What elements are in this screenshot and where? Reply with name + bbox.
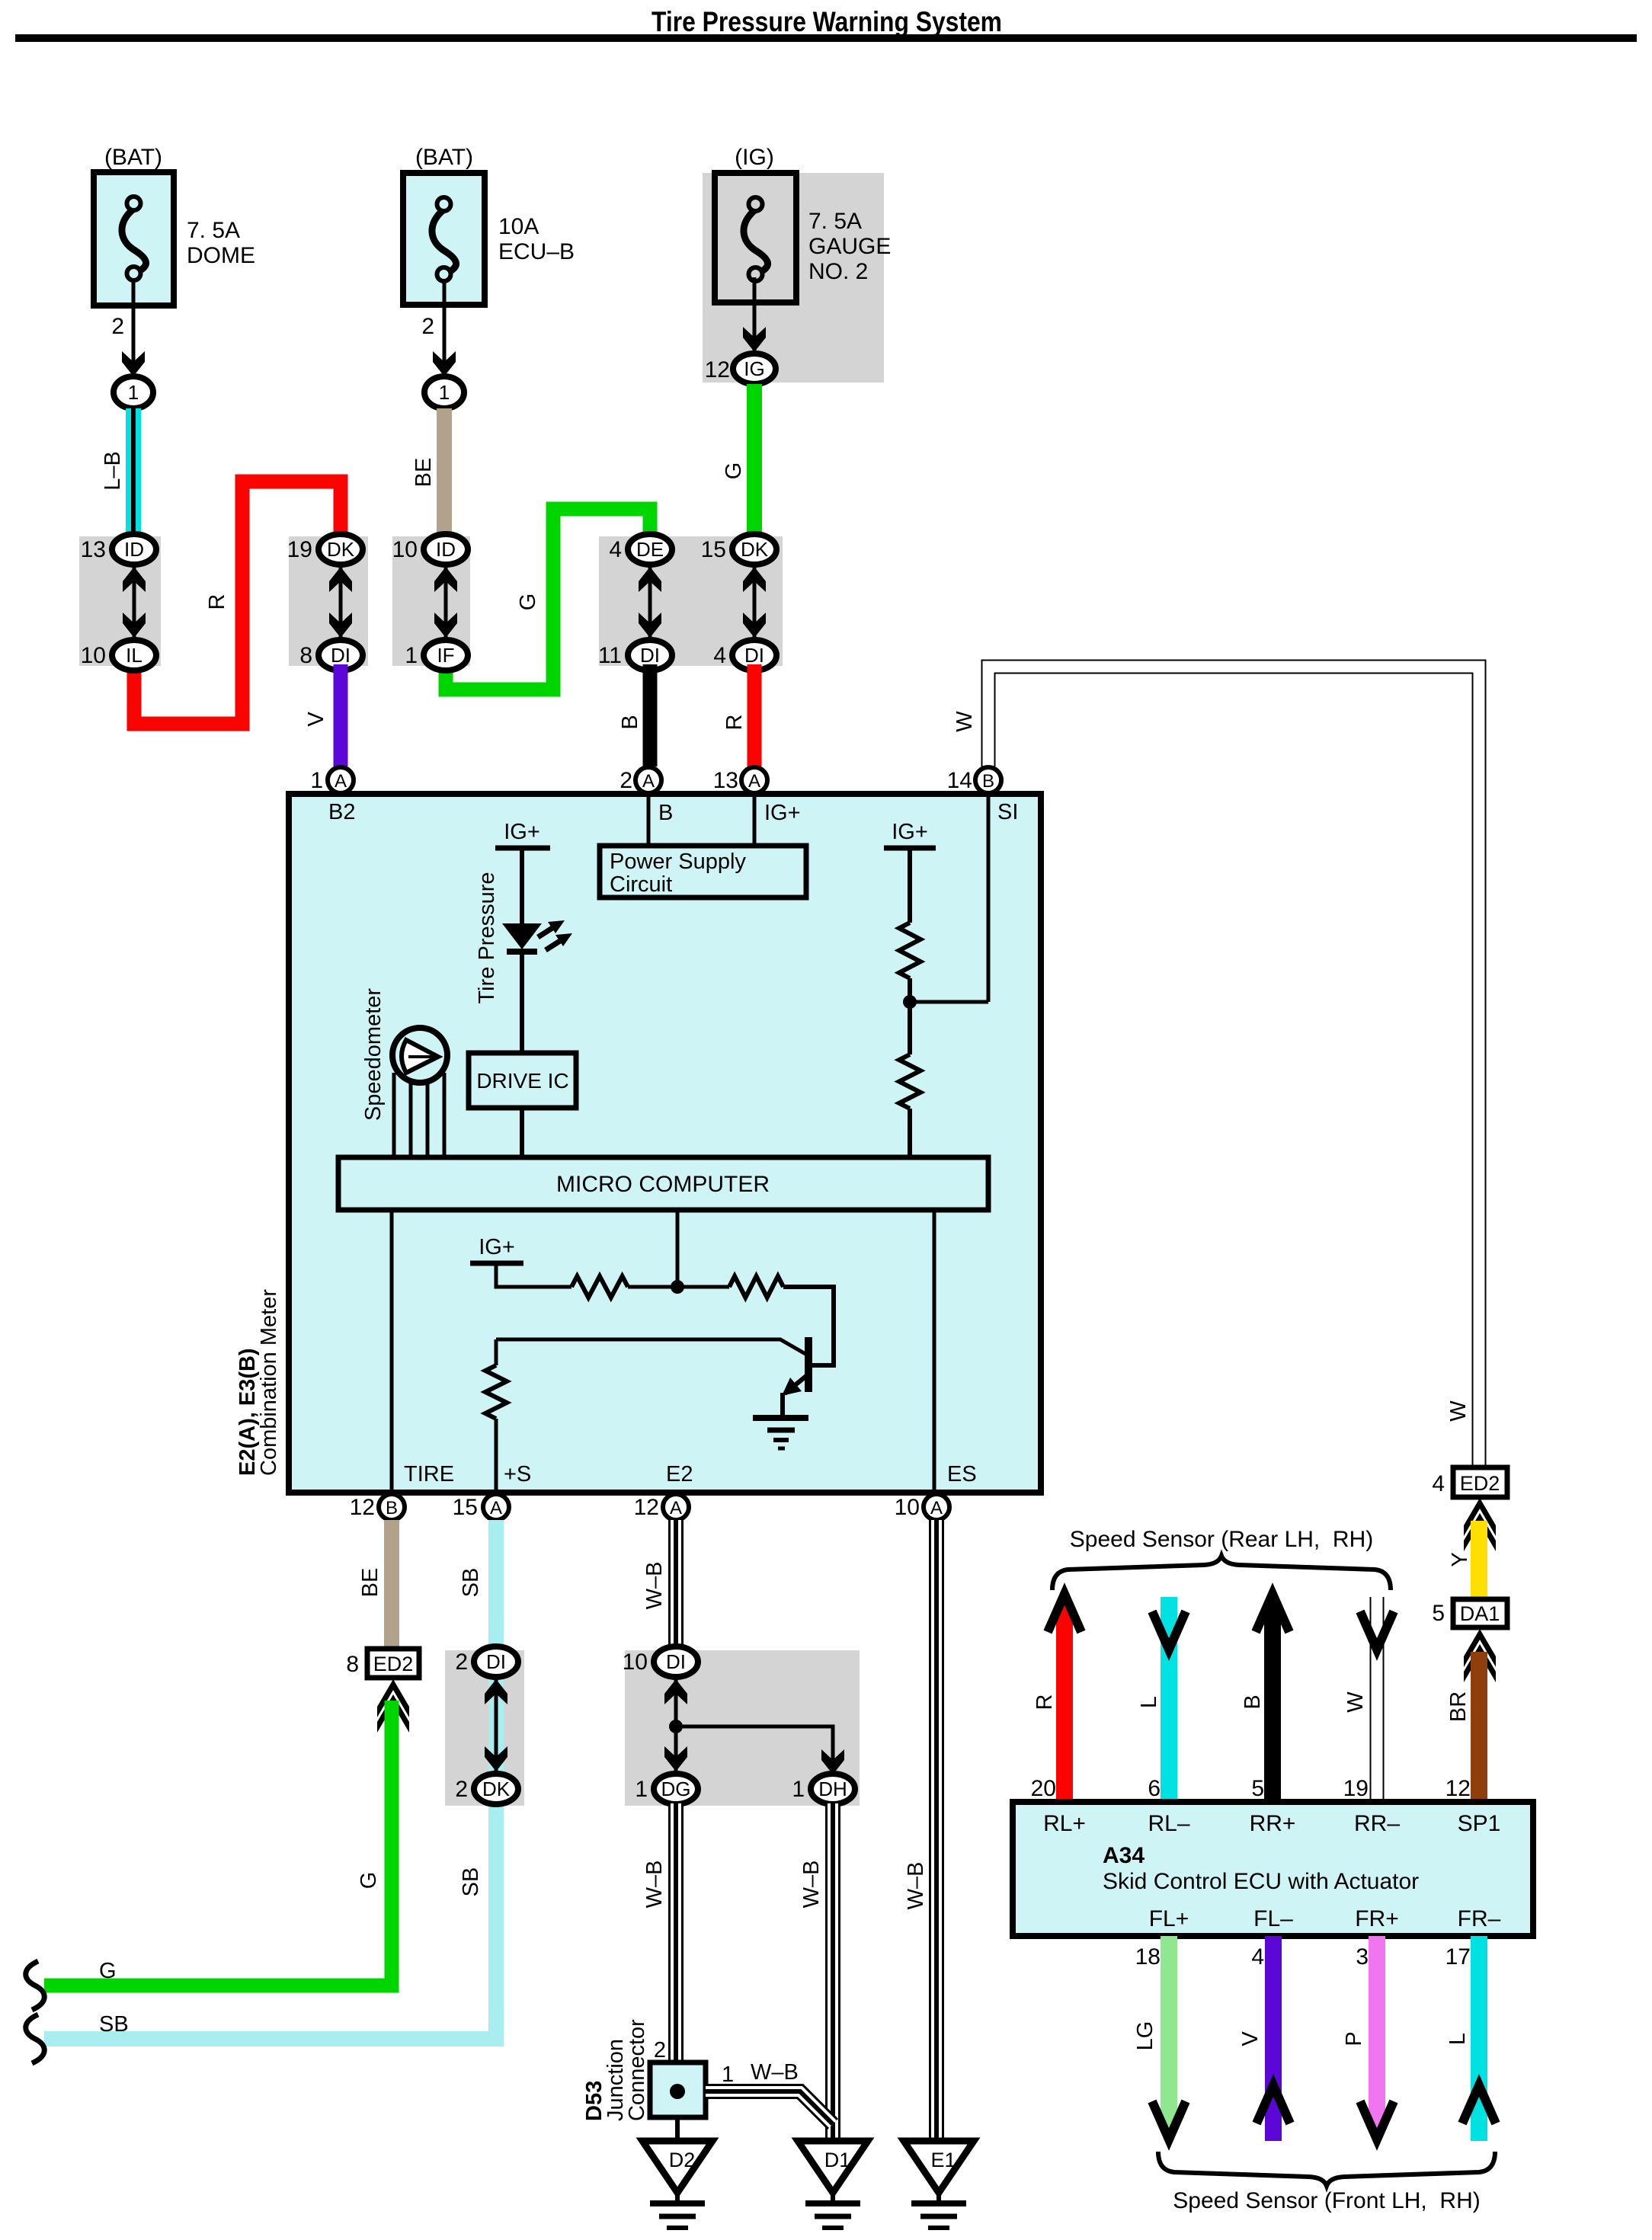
node junction in connector — [669, 1720, 683, 1733]
svg-text:SP1: SP1 — [1458, 1811, 1501, 1836]
svg-text:4: 4 — [609, 537, 622, 562]
svg-text:ID: ID — [436, 538, 456, 561]
node junction SI — [903, 995, 917, 1009]
skid control ECU A34 box — [1013, 1802, 1533, 1936]
svg-text:12: 12 — [1445, 1776, 1471, 1801]
svg-text:DI: DI — [666, 1650, 686, 1673]
svg-text:A: A — [748, 771, 760, 792]
wire V violet DI to meter B2 — [334, 664, 348, 766]
wire fuse DOME to ring 1 — [132, 280, 136, 375]
svg-text:W–B: W–B — [904, 1862, 928, 1910]
svg-text:E2: E2 — [666, 1462, 693, 1486]
chevron ED2 right — [1464, 1498, 1496, 1536]
resistor bias right — [729, 1276, 783, 1298]
svg-text:10: 10 — [623, 1650, 648, 1675]
svg-text:1: 1 — [128, 381, 139, 404]
svg-text:IF: IF — [437, 644, 454, 667]
LED tire pressure warning — [502, 923, 542, 949]
svg-text:20: 20 — [1031, 1776, 1056, 1801]
svg-text:BE: BE — [358, 1568, 383, 1598]
svg-text:W–B: W–B — [642, 1861, 667, 1909]
wire W-B DH to D1 ground — [825, 1803, 840, 2140]
svg-text:DG: DG — [661, 1778, 691, 1800]
svg-text:IG+: IG+ — [504, 820, 540, 844]
speedometer coil wires — [392, 1073, 396, 1157]
svg-text:B: B — [386, 1498, 398, 1518]
svg-text:RR–: RR– — [1354, 1811, 1400, 1836]
svg-text:DI: DI — [640, 644, 660, 667]
gray panel connector DE DK / DI DI — [599, 536, 783, 666]
svg-text:DA1: DA1 — [1460, 1602, 1500, 1625]
svg-text:13: 13 — [713, 768, 738, 793]
wire V violet FL- — [1265, 1936, 1282, 2141]
terminal IG — [733, 354, 776, 384]
svg-text:ED2: ED2 — [1460, 1472, 1500, 1495]
svg-text:A: A — [642, 771, 655, 792]
resistor divider upper — [899, 923, 920, 978]
connector ED2 pin 4 — [1453, 1467, 1507, 1497]
svg-text:Tire Pressure: Tire Pressure — [475, 872, 499, 1004]
svg-text:13: 13 — [81, 537, 106, 562]
svg-text:Speed Sensor (Rear LH, RH): Speed Sensor (Rear LH, RH) — [1070, 1527, 1374, 1552]
connector pass-through arrow DK-DI — [753, 567, 757, 638]
svg-text:V: V — [1238, 2031, 1263, 2046]
svg-text:2: 2 — [455, 1777, 468, 1802]
wire B to power supply — [647, 793, 651, 846]
svg-text:ECU–B: ECU–B — [498, 239, 575, 264]
svg-text:4: 4 — [713, 643, 726, 668]
connector pass-through arrow DI-DK lower — [495, 1679, 498, 1771]
connector DA1 pin 5 — [1453, 1599, 1507, 1627]
wire node to micro computer — [676, 1210, 680, 1287]
gray panel connector DI/DK lower — [445, 1650, 524, 1806]
title rule — [15, 34, 1637, 42]
ground (transistor emitter) — [753, 1415, 808, 1421]
svg-text:5: 5 — [1251, 1776, 1264, 1801]
svg-text:Combination Meter: Combination Meter — [257, 1289, 281, 1476]
svg-text:W–B: W–B — [642, 1562, 667, 1610]
svg-text:Speedometer: Speedometer — [361, 988, 386, 1121]
transistor Q (PNP) — [805, 1337, 812, 1392]
wire B black DI to meter B — [643, 664, 658, 766]
ground D2 — [642, 2141, 712, 2193]
svg-text:FL+: FL+ — [1149, 1906, 1189, 1931]
wire BE tan — [437, 408, 452, 536]
svg-text:4: 4 — [1251, 1944, 1264, 1970]
svg-text:DI: DI — [486, 1650, 506, 1673]
svg-text:7. 5A: 7. 5A — [808, 209, 862, 234]
svg-text:BE: BE — [411, 458, 436, 488]
wire W-B D53 branch to D1 — [706, 2091, 833, 2124]
svg-text:2: 2 — [654, 2038, 666, 2062]
svg-text:SB: SB — [99, 2012, 129, 2037]
micro computer box — [338, 1157, 988, 1210]
svg-text:1: 1 — [792, 1777, 805, 1802]
wire L cyan FR- — [1471, 1936, 1487, 2141]
svg-text:2: 2 — [455, 1650, 468, 1675]
svg-text:19: 19 — [287, 537, 312, 562]
svg-text:RL+: RL+ — [1043, 1811, 1086, 1836]
wire W white speed sensor RR- — [1370, 1597, 1385, 1802]
wire G green IF to DE — [446, 509, 650, 690]
svg-text:W: W — [1446, 1400, 1471, 1422]
wire R red speed sensor RL+ — [1056, 1605, 1073, 1802]
wire L cyan speed sensor RL- — [1161, 1597, 1177, 1802]
brace rear speed sensors — [1052, 1556, 1391, 1590]
svg-text:MICRO COMPUTER: MICRO COMPUTER — [556, 1172, 770, 1197]
wire resistor to collector branch — [783, 1287, 834, 1365]
svg-text:12: 12 — [350, 1495, 375, 1520]
svg-text:(BAT): (BAT) — [415, 145, 473, 170]
wire break squiggle G — [26, 1961, 45, 2010]
wire R red DI to meter IG+ — [748, 664, 762, 766]
wire B black speed sensor RR+ — [1264, 1605, 1281, 1802]
junction connector D53 — [650, 2062, 706, 2117]
wire base from +S node — [496, 1339, 805, 1354]
svg-text:R: R — [722, 715, 747, 731]
svg-text:SB: SB — [459, 1867, 483, 1897]
wire G green to left break — [44, 1701, 392, 1986]
svg-text:IG+: IG+ — [764, 801, 801, 825]
wire Y yellow — [1471, 1521, 1487, 1599]
svg-text:3: 3 — [1356, 1944, 1369, 1970]
wire P pink FR+ — [1369, 1936, 1385, 2130]
svg-text:18: 18 — [1135, 1944, 1161, 1970]
svg-text:G: G — [722, 462, 746, 480]
wire LED to drive ic — [520, 952, 524, 1053]
gray panel connector ID/IF — [392, 536, 470, 666]
svg-text:W: W — [952, 711, 977, 732]
svg-text:R: R — [205, 594, 229, 610]
svg-text:(BAT): (BAT) — [104, 145, 162, 170]
ring terminal 1 (DOME) — [114, 376, 153, 408]
drive ic box — [469, 1053, 576, 1108]
svg-text:7. 5A: 7. 5A — [187, 218, 240, 243]
chevron ED2 — [377, 1679, 409, 1717]
connector arrow DI to DG — [674, 1679, 678, 1771]
svg-text:10A: 10A — [498, 214, 539, 239]
svg-text:15: 15 — [701, 537, 726, 562]
wire SB to left break — [44, 1520, 496, 2039]
gray panel connector ID/IL — [79, 536, 161, 666]
svg-text:A: A — [670, 1498, 682, 1518]
svg-text:RR+: RR+ — [1250, 1811, 1296, 1836]
svg-text:D1: D1 — [824, 2149, 851, 2171]
wire IG+ to power supply — [753, 793, 757, 846]
svg-text:L–B: L–B — [101, 451, 125, 491]
wire W-B ES to E1 ground — [929, 1520, 944, 2140]
svg-text:2: 2 — [111, 314, 124, 339]
svg-text:ID: ID — [124, 538, 144, 561]
svg-text:+S: +S — [504, 1462, 531, 1486]
svg-text:ED2: ED2 — [373, 1653, 414, 1675]
svg-text:DK: DK — [741, 538, 769, 561]
svg-text:8: 8 — [346, 1652, 359, 1677]
svg-text:4: 4 — [1432, 1471, 1445, 1496]
svg-text:G: G — [516, 594, 540, 611]
svg-text:G: G — [99, 1959, 117, 1983]
wire fuse ECU-B to ring 1 — [443, 280, 447, 375]
svg-text:ES: ES — [947, 1462, 977, 1486]
svg-text:R: R — [1032, 1694, 1057, 1710]
wire W-B E2 to DI — [668, 1520, 684, 1650]
svg-text:(IG): (IG) — [735, 145, 774, 170]
svg-text:L: L — [1445, 2033, 1470, 2045]
wire emitter to ground — [780, 1393, 785, 1417]
wire to node — [628, 1285, 729, 1289]
svg-text:GAUGE: GAUGE — [808, 234, 891, 259]
svg-text:RL–: RL– — [1148, 1811, 1189, 1836]
connector pass-through arrow ID-IF — [444, 567, 448, 638]
power supply circuit box — [600, 846, 806, 898]
svg-text:5: 5 — [1432, 1601, 1445, 1626]
svg-text:A: A — [490, 1498, 502, 1518]
svg-text:Circuit: Circuit — [610, 872, 672, 897]
svg-text:DH: DH — [818, 1778, 847, 1800]
wire R red IL to DK — [134, 482, 341, 724]
svg-text:A: A — [335, 771, 347, 792]
fuse 7.5A GAUGE NO.2 — [715, 173, 796, 302]
svg-text:FL–: FL– — [1253, 1906, 1293, 1931]
svg-text:W–B: W–B — [751, 2060, 799, 2085]
svg-text:E1: E1 — [930, 2149, 956, 2171]
svg-text:IL: IL — [126, 644, 142, 667]
wire W-B DG to D53 — [668, 1803, 684, 2062]
svg-text:1: 1 — [722, 2062, 734, 2087]
svg-text:19: 19 — [1343, 1776, 1369, 1801]
svg-text:1: 1 — [439, 381, 450, 404]
svg-text:V: V — [304, 712, 328, 727]
svg-text:Speed Sensor (Front LH, RH): Speed Sensor (Front LH, RH) — [1173, 2188, 1481, 2213]
wire fuse GAUGE to IG terminal — [753, 277, 757, 350]
svg-text:1: 1 — [310, 768, 323, 793]
fuse 7.5A DOME — [94, 172, 174, 306]
resistor divider lower — [899, 1054, 920, 1109]
resistor bias left — [571, 1276, 628, 1298]
svg-text:10: 10 — [895, 1495, 920, 1520]
wire TIRE output — [390, 1210, 394, 1493]
svg-text:1: 1 — [635, 1777, 648, 1802]
svg-text:FR–: FR– — [1458, 1906, 1501, 1931]
svg-text:SI: SI — [997, 800, 1018, 824]
svg-text:B: B — [1241, 1694, 1265, 1709]
brace front speed sensors — [1158, 2152, 1495, 2186]
gray panel behind GAUGE fuse — [703, 173, 884, 382]
fuse 10A ECU-B — [403, 173, 485, 305]
svg-text:FR+: FR+ — [1355, 1906, 1399, 1931]
wire BR brown — [1471, 1652, 1487, 1802]
svg-text:A34: A34 — [1103, 1843, 1145, 1868]
svg-text:DK: DK — [482, 1778, 511, 1800]
svg-text:10: 10 — [392, 537, 418, 562]
svg-text:1: 1 — [405, 643, 418, 668]
svg-text:D2: D2 — [669, 2149, 696, 2171]
svg-text:W–B: W–B — [799, 1861, 824, 1909]
svg-text:LG: LG — [1133, 2021, 1157, 2051]
ring terminal 1 (ECU-B) — [424, 376, 464, 408]
wire break squiggle SB — [26, 2014, 45, 2063]
connector pass-through arrow DE-DI — [648, 567, 652, 638]
svg-text:P: P — [1342, 2031, 1366, 2046]
svg-text:DOME: DOME — [187, 243, 255, 268]
wire drive ic to micro computer — [520, 1108, 524, 1157]
connector pass-through arrow DK-DI — [339, 567, 343, 638]
LED light arrows — [538, 926, 555, 937]
svg-text:6: 6 — [1148, 1776, 1161, 1801]
gray panel connector DI/DG/DH lower — [625, 1650, 860, 1806]
svg-text:11: 11 — [598, 643, 622, 668]
svg-text:DRIVE IC: DRIVE IC — [476, 1069, 568, 1093]
wire resistor to +S terminal — [495, 1419, 498, 1493]
svg-text:17: 17 — [1445, 1944, 1471, 1970]
svg-text:8: 8 — [299, 643, 312, 668]
svg-text:Skid Control ECU with Actuator: Skid Control ECU with Actuator — [1103, 1869, 1419, 1894]
svg-text:Connector: Connector — [625, 2019, 649, 2121]
svg-text:BR: BR — [1446, 1691, 1471, 1722]
wire W white from SI to ED2 — [988, 667, 1479, 1467]
wire G green from IG — [747, 384, 762, 536]
gray panel connector DK/DI — [289, 536, 368, 666]
wire +S pull-down — [495, 1339, 498, 1365]
connector pass-through arrow ID-IL — [133, 567, 136, 638]
svg-text:A: A — [930, 1498, 943, 1518]
ground E1 — [904, 2141, 974, 2193]
wire D53 to D2 ground — [675, 2117, 680, 2141]
svg-text:Tire Pressure Warning System: Tire Pressure Warning System — [652, 6, 1002, 37]
svg-text:Power Supply: Power Supply — [610, 850, 746, 874]
svg-text:2: 2 — [619, 768, 632, 793]
svg-text:NO. 2: NO. 2 — [808, 259, 868, 284]
svg-text:B: B — [658, 801, 673, 825]
svg-text:15: 15 — [453, 1495, 478, 1520]
svg-text:IG+: IG+ — [479, 1235, 515, 1259]
svg-text:10: 10 — [81, 643, 106, 668]
svg-text:12: 12 — [705, 357, 730, 382]
svg-text:12: 12 — [634, 1495, 659, 1520]
svg-text:L: L — [1137, 1696, 1161, 1708]
speedometer gauge — [392, 1028, 447, 1083]
wire LG light green FL+ — [1161, 1936, 1177, 2130]
svg-text:B: B — [982, 771, 994, 792]
svg-text:W: W — [1343, 1691, 1368, 1713]
resistor +S — [485, 1365, 507, 1419]
wire resistor to micro computer — [908, 1109, 912, 1157]
svg-text:B2: B2 — [328, 800, 355, 824]
node junction base drive — [671, 1280, 684, 1294]
svg-text:DI: DI — [331, 644, 351, 667]
svg-text:2: 2 — [421, 314, 434, 339]
ground D1 — [798, 2141, 868, 2193]
wire ES from micro computer — [933, 1210, 936, 1493]
svg-text:14: 14 — [947, 768, 972, 793]
svg-text:Y: Y — [1448, 1552, 1472, 1566]
svg-text:IG+: IG+ — [892, 820, 928, 844]
svg-text:DK: DK — [327, 538, 355, 561]
svg-text:G: G — [357, 1872, 381, 1890]
svg-text:B: B — [618, 715, 642, 729]
svg-text:TIRE: TIRE — [404, 1462, 454, 1486]
connector ED2 pin 8 — [367, 1649, 419, 1678]
wire BE tan TIRE to ED2 — [384, 1520, 399, 1649]
svg-text:DE: DE — [636, 538, 664, 561]
svg-text:SB: SB — [459, 1568, 483, 1598]
svg-text:DI: DI — [744, 644, 764, 667]
wire L-B (cyan w/ black stripe) — [126, 408, 141, 536]
combination meter box E2(A) E3(B) — [289, 794, 1041, 1493]
wire SI from terminal B to node — [987, 797, 991, 1002]
wire branch to DH — [676, 1726, 833, 1769]
svg-text:IG: IG — [744, 357, 764, 380]
wire to node — [908, 978, 912, 1054]
chevron DA1 — [1464, 1629, 1496, 1667]
